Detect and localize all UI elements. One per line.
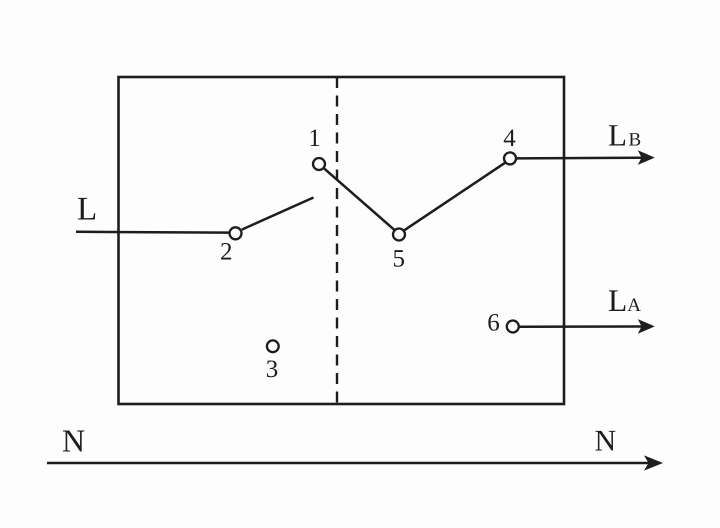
terminal 6	[507, 321, 519, 333]
svg-text:5: 5	[393, 246, 406, 273]
svg-text:3: 3	[266, 356, 279, 383]
svg-text:1: 1	[308, 125, 321, 152]
wire output LB arrow	[517, 150, 655, 165]
terminal 5	[393, 229, 405, 241]
wire N line arrow	[47, 455, 663, 470]
svg-text:L: L	[77, 192, 97, 228]
terminal 1	[313, 158, 325, 170]
svg-text:N: N	[62, 423, 85, 459]
svg-text:2: 2	[220, 239, 233, 266]
svg-text:A: A	[627, 295, 641, 316]
wire output LA arrow	[520, 319, 655, 334]
wire terminal 1 to terminal 5	[324, 169, 394, 230]
svg-text:B: B	[629, 130, 642, 151]
svg-text:L: L	[608, 118, 627, 153]
svg-text:N: N	[595, 425, 617, 458]
wire terminal 5 to terminal 4	[404, 163, 505, 231]
wire switch arm from terminal 2	[242, 198, 314, 230]
wire L input	[76, 231, 229, 234]
dashed partition line	[336, 77, 338, 404]
svg-text:6: 6	[487, 310, 500, 337]
switch enclosure box	[119, 77, 565, 404]
terminal 2	[230, 227, 242, 239]
svg-text:4: 4	[503, 125, 516, 152]
terminal 3	[267, 340, 279, 352]
svg-text:L: L	[608, 283, 627, 318]
terminal 4	[504, 152, 516, 164]
